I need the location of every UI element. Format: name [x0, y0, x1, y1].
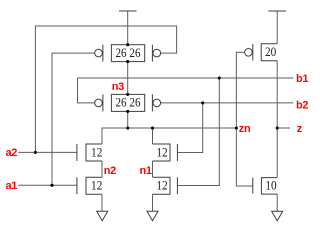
junction dot zn at mid stack	[151, 126, 154, 129]
wire left stack source to ground	[101, 194, 103, 211]
junction dot pair1 drain	[126, 60, 129, 63]
pmos pair P1 P2 body	[111, 45, 144, 62]
wire mid stack node n1	[152, 161, 154, 177]
wire net z: output column	[276, 61, 278, 178]
nmos N4 gate bar	[176, 177, 178, 194]
ground left	[97, 211, 108, 221]
junction dot pair2 source n3	[126, 93, 129, 96]
pmos pair P4 right gate bubble	[153, 99, 161, 107]
wire net zn: horizontal	[102, 128, 236, 144]
junction dot zn at pair column	[126, 126, 129, 129]
junction dot a1	[50, 184, 53, 187]
wire left stack drain	[101, 161, 103, 177]
nmos N2 body (a1,12)	[86, 177, 102, 194]
junction dot b1	[218, 76, 221, 79]
nmos N3 gate bar	[176, 144, 178, 161]
svg-text:n1: n1	[139, 165, 151, 177]
nmos N1 body (a2,12)	[86, 144, 102, 161]
wire net a1: lead to left NMOS lower gate	[18, 184, 77, 186]
nmos N2 gate bar	[76, 177, 78, 194]
ground right	[272, 211, 283, 221]
svg-text:26 26: 26 26	[116, 46, 141, 60]
pmos P5 gate bar	[252, 44, 254, 61]
wire vdd2 to PMOS 20 source	[276, 11, 278, 44]
svg-text:a2: a2	[6, 147, 18, 159]
wire net b1: horizontal bus to label	[78, 78, 294, 103]
svg-text:12: 12	[156, 146, 167, 160]
ground middle	[147, 211, 158, 221]
junction dot z node	[276, 126, 279, 129]
pmos pair P1 left gate bubble	[95, 49, 103, 57]
power vdd1	[119, 10, 137, 12]
pmos pair P3 left gate bar	[102, 94, 104, 111]
svg-text:b2: b2	[296, 100, 308, 112]
junction dot b2	[201, 101, 204, 104]
svg-text:b1: b1	[296, 73, 308, 85]
svg-text:12: 12	[91, 146, 102, 160]
wire NMOS 10 source to ground	[276, 194, 278, 211]
svg-text:12: 12	[156, 179, 167, 193]
nmos N5 body (10)	[261, 178, 277, 195]
wire net b1: drop to mid NMOS lower gate	[177, 78, 219, 186]
svg-text:10: 10	[265, 179, 276, 193]
wire mid stack drain from zn	[152, 128, 154, 144]
wire net zn: from pair2 drain down	[127, 111, 129, 128]
wire mid stack source to ground	[152, 194, 154, 211]
wire vdd1 to pair1 source	[127, 11, 129, 45]
power vdd2	[268, 10, 286, 12]
wire net a1: riser to pair1 left gate	[52, 53, 94, 185]
junction dot a2	[34, 151, 37, 154]
pmos pair P1 left gate bar	[102, 45, 104, 62]
wire net a2: riser and top route to pair1 right gate	[35, 26, 176, 152]
svg-text:20: 20	[265, 45, 276, 59]
svg-text:zn: zn	[239, 123, 251, 135]
pmos P5 gate bubble	[245, 49, 253, 57]
wire net n3 between PMOS pairs	[127, 62, 129, 95]
nmos N4 body (b1,12)	[153, 177, 171, 194]
wire net zn: riser to inverter gates	[236, 52, 252, 186]
pmos pair P4 right gate bar	[151, 94, 153, 111]
wire net b2: horizontal bus to label	[161, 102, 294, 104]
wire net b2: drop to mid NMOS upper gate	[177, 103, 202, 153]
junction dot zn node	[235, 126, 238, 129]
pmos pair P3 P4 body	[111, 94, 144, 111]
pmos pair P2 right gate bar	[151, 45, 153, 62]
nmos N1 gate bar	[76, 144, 78, 161]
pmos pair P2 right gate bubble	[153, 49, 161, 57]
svg-text:n3: n3	[112, 81, 124, 93]
wire net a2: lead to left NMOS gate	[18, 151, 77, 153]
svg-text:a1: a1	[6, 180, 18, 192]
svg-text:n2: n2	[104, 165, 116, 177]
junction dot pair2 drain	[126, 110, 129, 113]
wire net z: stub to label	[277, 127, 290, 129]
svg-text:z: z	[297, 123, 303, 135]
nmos N5 gate bar	[252, 178, 254, 194]
junction dot pair1 source	[126, 43, 129, 46]
svg-text:12: 12	[91, 179, 102, 193]
pmos P5 body (20)	[261, 44, 277, 61]
pmos pair P3 left gate bubble	[95, 99, 103, 107]
svg-text:26 26: 26 26	[116, 96, 141, 110]
nmos N3 body (b2,12)	[153, 144, 171, 161]
